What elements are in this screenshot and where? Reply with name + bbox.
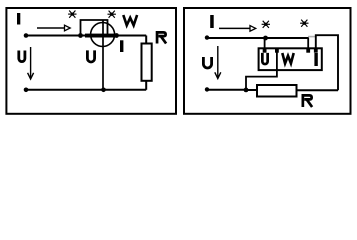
wire node to resistor xyxy=(246,89,257,91)
junction dot (current coil out) xyxy=(114,33,119,38)
label U (source voltage) xyxy=(17,51,26,64)
left panel frame xyxy=(6,8,176,114)
terminal pad I xyxy=(314,48,318,52)
current coil bridge over meter xyxy=(81,20,108,35)
terminal jumper: I terminal to load loop xyxy=(316,35,338,90)
resistor right lead to loop xyxy=(297,89,339,91)
junction dot to U* pad xyxy=(263,36,268,41)
voltage direction arrow (down) xyxy=(28,47,34,79)
current path bar through meter xyxy=(85,34,115,38)
label U (source voltage, right panel) xyxy=(202,57,213,69)
label I (source current, right panel) xyxy=(210,15,214,28)
resistor R (load, left panel) xyxy=(142,44,152,81)
junction dot (bridge left / asterisk terminal) xyxy=(78,33,83,38)
lead to I* terminal pad (wire end) xyxy=(307,38,309,49)
current direction arrow (right panel) xyxy=(219,26,256,32)
label W (wattmeter) xyxy=(123,15,137,25)
asterisk (current * terminal, right panel) xyxy=(300,20,308,27)
source - terminal dot xyxy=(24,88,29,93)
label U (box) xyxy=(261,53,269,66)
label I (box) xyxy=(314,53,317,66)
voltage path lead (meter to bottom wire) xyxy=(102,21,104,90)
lead to U* terminal pad xyxy=(264,38,266,49)
resistor R (load, right panel) xyxy=(257,85,297,97)
terminal dot - (right panel) xyxy=(205,87,209,91)
label W (box) xyxy=(282,53,293,63)
top wire (right panel) xyxy=(207,37,309,39)
source + terminal dot xyxy=(24,33,29,38)
terminal pad U* xyxy=(263,48,267,52)
junction dot on bottom wire (voltage lead) xyxy=(101,88,106,93)
label R (right panel) xyxy=(302,94,305,107)
polarity asterisk (voltage coil terminal) xyxy=(108,11,116,18)
label U (voltage at meter) xyxy=(86,50,96,63)
terminal pad I* xyxy=(306,48,310,52)
bottom return wire xyxy=(26,89,146,91)
wire corner down to resistor xyxy=(145,36,147,44)
label R (left panel) xyxy=(156,31,159,44)
label I (load current below junction) xyxy=(120,40,123,52)
junction dot (voltage tap / resistor node) xyxy=(244,88,249,93)
polarity asterisk (current coil terminal) xyxy=(68,11,76,18)
voltage direction arrow (down, right panel) xyxy=(215,46,221,79)
right panel frame xyxy=(184,8,351,114)
bottom wire (right panel) xyxy=(207,89,246,91)
voltage tap lead (U pad down to resistor node) xyxy=(246,52,277,90)
asterisk (voltage * terminal, right panel) xyxy=(262,21,270,28)
terminal dot + (right panel) xyxy=(205,35,209,39)
faint link echo (wire end to jumper) xyxy=(308,36,316,38)
wattmeter meter circle xyxy=(91,23,115,47)
wattmeter box (device view) xyxy=(259,48,322,70)
resistor bottom lead xyxy=(145,81,147,90)
top wire (source to load corner) xyxy=(26,35,146,37)
label I (source current, left panel) xyxy=(17,13,20,25)
current direction arrow (left panel) xyxy=(37,25,70,31)
terminal pad U xyxy=(275,48,279,52)
